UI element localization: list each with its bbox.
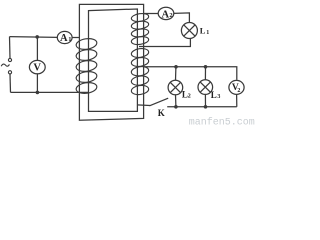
lamp L1: [181, 23, 197, 39]
junction dot bottom-left: [36, 91, 40, 95]
wire: L2 branch lower: [175, 95, 177, 107]
svg-text:1: 1: [68, 36, 71, 43]
svg-text:V: V: [33, 63, 41, 74]
wire: L3 branch lower: [204, 94, 206, 106]
wire: V branch vertical upper: [36, 37, 38, 61]
svg-text:3: 3: [217, 94, 220, 100]
wire: switch stub from core: [137, 104, 150, 107]
svg-text:2: 2: [237, 88, 240, 94]
svg-text:K: K: [158, 108, 165, 118]
primary winding P1 (5 loops, left leg): [75, 37, 97, 94]
wire: V branch vertical lower: [36, 74, 38, 93]
wire: secondary top to A2: [144, 13, 159, 15]
wire: L3 branch upper: [204, 67, 206, 80]
ammeter A2: [158, 7, 174, 19]
ammeter A1: [57, 31, 72, 43]
voltmeter V2: [229, 80, 244, 94]
AC source terminal lower: [8, 71, 11, 74]
wire: bottom bus: [167, 106, 237, 108]
transformer core inner rectangle: [89, 9, 138, 111]
wire: left vertical lower: [9, 74, 12, 92]
wire: A2 to L1 top corner: [174, 13, 190, 23]
wire: L2 branch upper: [175, 67, 177, 81]
junction dot L3 bottom: [204, 105, 208, 109]
svg-text:L: L: [211, 90, 217, 100]
wire: L1 bottom back to secondary tap: [139, 39, 190, 47]
junction dot L3 top: [204, 65, 208, 69]
svg-text:2: 2: [169, 12, 172, 19]
transformer core outer rectangle: [79, 4, 143, 120]
wire: secondary tap to parallel top bus: [144, 67, 237, 80]
svg-text:A: A: [60, 33, 68, 44]
junction dot top-left: [35, 35, 39, 39]
wire: left vertical upper: [9, 37, 12, 59]
svg-text:L: L: [200, 26, 206, 36]
junction dot L2 top: [174, 65, 178, 69]
AC tilde symbol: [1, 64, 9, 66]
lamp L3: [198, 80, 213, 95]
svg-text:2: 2: [188, 94, 191, 100]
svg-text:A: A: [162, 10, 170, 21]
lamp L2: [168, 80, 183, 95]
svg-text:manfen5.com: manfen5.com: [189, 117, 255, 129]
voltmeter V: [29, 60, 45, 73]
wire: V2 bottom to bus: [236, 94, 238, 106]
secondary winding S3 lower section (3 loops): [131, 66, 149, 96]
AC source terminal upper: [8, 58, 11, 61]
switch K blade: [150, 98, 169, 106]
wire: bottom-left horizontal (to primary bottom): [11, 91, 90, 93]
svg-text:1: 1: [206, 30, 209, 36]
wire: A1 to primary top: [72, 37, 80, 39]
wire: top-left horizontal (source top to A1): [10, 36, 58, 39]
junction dot L2 bottom: [174, 105, 178, 109]
secondary winding S1 upper section (4 loops, right leg): [131, 13, 149, 46]
secondary winding S2 middle section (2 loops): [131, 48, 149, 68]
